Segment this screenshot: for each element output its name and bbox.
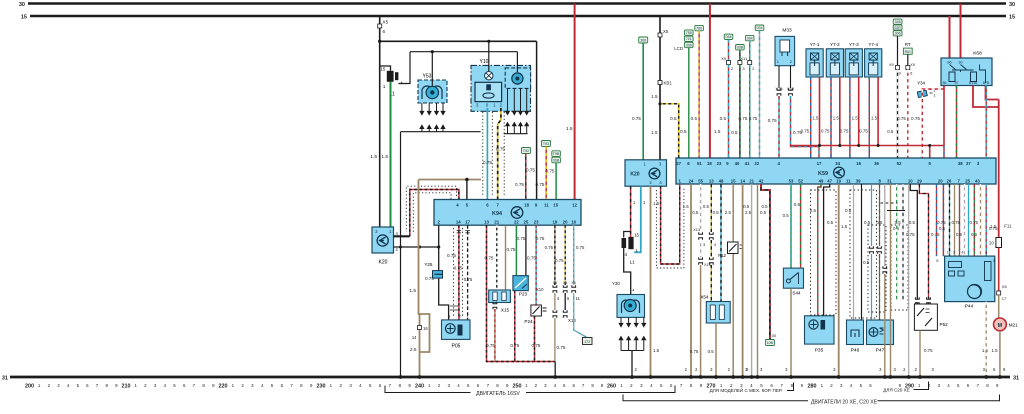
svg-text:ДЛЯ С20 ХЕ: ДЛЯ С20 ХЕ [883,388,910,393]
svg-text:30B: 30B [553,159,560,163]
svg-text:0.5: 0.5 [810,208,817,213]
wire red-blue to P44 [942,184,944,256]
shield dots loop [406,186,456,232]
wire K59 pin55 grey [700,184,702,232]
wire elbow to L1 t15 [380,66,391,71]
svg-text:0.75: 0.75 [738,116,747,121]
wire green-dash right [896,184,898,300]
svg-text:26: 26 [947,178,952,183]
svg-text:39: 39 [856,178,861,183]
wire tag to K94 pin11 [545,147,547,200]
wire M33 left lead [778,66,780,88]
svg-text:30: 30 [1009,2,1015,8]
svg-text:2.5: 2.5 [410,347,417,353]
wire K94 pin25 to P23 [525,225,527,275]
svg-text:0.75: 0.75 [507,247,516,252]
svg-text:13: 13 [484,219,489,224]
junction inj join 806 [818,144,821,147]
injector Y7-3 [845,42,862,77]
bus 15 (second) [30,15,1006,18]
wire teal-red M33 to K59 pin4 [778,96,780,158]
wire K59 pin29 to P52 [919,184,928,299]
svg-text:15: 15 [634,232,639,237]
svg-text:18: 18 [524,203,529,208]
svg-text:23: 23 [717,161,722,166]
svg-text:X13: X13 [693,228,700,232]
svg-text:18: 18 [707,161,712,166]
junction rail p21 [750,375,754,379]
junction junction y51 Y53 [431,50,434,53]
wire Y53 lead 1 [421,103,423,108]
tag 034 a [724,34,733,39]
svg-text:3: 3 [953,251,955,255]
injector Y10 inner module [475,82,502,101]
svg-text:10: 10 [908,178,913,183]
wire red bus30 to K94 pin12 [574,4,576,200]
svg-text:1.5: 1.5 [833,116,840,121]
wire K94 pin16 teal [573,225,575,285]
svg-text:ДВИГАТЕЛИ 20 ХЕ, С20 ХЕ: ДВИГАТЕЛИ 20 ХЕ, С20 ХЕ [811,399,878,405]
wire brown-white p44 [980,184,982,256]
connector X13 right [563,310,567,318]
wire K59 pin52b red-green [800,184,802,268]
wire K20r brown to rail [650,186,652,377]
svg-text:S44: S44 [792,291,801,296]
svg-text:ДЛЯ МОДЕЛЕЙ С МЕХ. КОР. ПЕР.: ДЛЯ МОДЕЛЕЙ С МЕХ. КОР. ПЕР. [710,386,783,393]
svg-text:1.5: 1.5 [651,94,658,99]
svg-text:86: 86 [943,81,947,85]
svg-text:Y7-1: Y7-1 [810,42,820,47]
svg-text:0.75: 0.75 [937,220,946,225]
rail coordinate scale [25,383,999,390]
svg-text:F11: F11 [1004,224,1012,229]
svg-text:0.75: 0.75 [464,277,473,282]
sensor P12 [718,242,743,258]
svg-text:KB1: KB1 [664,81,673,86]
svg-text:30: 30 [772,333,777,338]
tag 03B [736,45,745,50]
wire Y7-3 supply [858,77,860,146]
svg-text:49: 49 [819,178,824,183]
injector Y7-2 [826,42,843,77]
connector X5 left [378,24,382,28]
wire K20 pin2 [394,246,439,248]
svg-text:15: 15 [380,67,385,72]
wire K59 pin13 yellow [710,184,712,232]
connector X1B left [777,88,781,96]
svg-text:0.75: 0.75 [555,258,564,263]
svg-text:755: 755 [686,31,692,35]
wire black tag to X9c [897,36,899,66]
connector X11 [748,61,752,65]
svg-text:6: 6 [985,251,987,255]
svg-text:X5: X5 [571,281,575,285]
wire red F11 to X6 [998,248,1000,292]
connector-arrows Y10 lead 3 [519,108,523,129]
svg-text:X9: X9 [910,63,915,67]
svg-text:721: 721 [686,37,692,41]
wire black y41 to K94 pin9 [536,41,538,199]
wire red-green K68 pin87 down [956,86,958,159]
wire Y7-2 control [830,77,832,158]
svg-text:2.5: 2.5 [745,210,752,215]
svg-text:760: 760 [696,27,702,31]
svg-text:210: 210 [122,384,131,390]
wire red K68 to F11 b [973,86,999,108]
wire red down to F11 [998,100,1000,242]
svg-text:X13: X13 [568,318,576,323]
wire black bus15 to K20r [659,16,661,160]
tag LCD tag2 [685,36,694,41]
svg-text:X5: X5 [563,281,567,285]
svg-text:034: 034 [726,35,732,39]
injector unit Y10 outline [471,59,531,111]
svg-text:6: 6 [910,72,912,76]
sensor P52 [914,304,948,330]
svg-text:P05: P05 [452,344,461,350]
svg-text:P12: P12 [718,253,726,258]
K94 pin numbers [438,203,578,225]
svg-text:0.5: 0.5 [680,129,687,134]
svg-text:0.75: 0.75 [454,266,463,271]
svg-text:37: 37 [966,161,971,166]
svg-text:1.5: 1.5 [370,154,377,160]
wire pin19 cont [554,293,556,310]
svg-text:0.75: 0.75 [897,116,906,121]
svg-text:R61: R61 [905,50,911,54]
svg-text:42: 42 [759,178,764,183]
wire red-teal M33 right to pin17 [791,96,820,158]
wire K59 pin19 brown [838,184,840,377]
svg-text:0.75: 0.75 [989,226,998,231]
wire Y53 lead 3 [436,103,438,108]
wire red-blue mid [936,184,938,256]
svg-text:0.5: 0.5 [956,232,963,237]
tag 306 left [639,37,648,43]
svg-text:0.5: 0.5 [691,116,698,121]
bracket engines 20XE C20XE [623,395,1000,401]
svg-text:47: 47 [827,178,832,183]
wire M21 to rail [999,331,1001,377]
svg-text:X15: X15 [501,308,510,313]
svg-text:0.5: 0.5 [783,213,790,218]
sensor Y25 [424,262,442,278]
svg-text:B13A: B13A [969,81,978,85]
svg-text:0.5: 0.5 [708,349,715,354]
svg-text:15: 15 [731,178,736,183]
shield box P46 [850,190,877,318]
svg-text:K68: K68 [973,51,982,57]
svg-text:03B: 03B [737,46,744,50]
connector X13a [699,232,703,240]
svg-text:0.75: 0.75 [515,182,524,187]
wire red-teal to P44 [985,184,987,256]
svg-text:31: 31 [887,178,892,183]
svg-text:P24: P24 [524,319,533,324]
connector X13 left [553,310,557,318]
connector-arrows Y10 lead 4 [525,108,529,129]
tag 346c [893,31,902,36]
wire K59 pin25 teal2 [968,184,970,256]
svg-text:240: 240 [415,384,424,390]
shield dots loop right [656,188,684,268]
svg-text:X9: X9 [721,56,727,61]
wire red-yellow to K59 pin51 [698,31,700,158]
junction rail brown [418,375,422,379]
junction rail grey [907,375,911,379]
wire brown feeder horizontal [419,179,482,181]
wire Y10 lead 1 [507,88,509,108]
sensor P35 [805,316,835,354]
junction junction KB1 branch [658,102,661,105]
svg-text:Y53: Y53 [423,74,432,80]
valve Y34 [917,81,935,98]
junction junction X5 [378,40,381,43]
svg-text:260: 260 [607,384,616,390]
wire Y10 lead 2 [513,88,515,108]
sensor P46 [847,320,864,354]
svg-text:P52: P52 [940,322,949,327]
svg-text:40: 40 [735,161,740,166]
svg-text:0.5: 0.5 [909,220,916,225]
wire K59 pin21 grey [751,184,753,377]
svg-text:RT: RT [905,42,911,47]
wire black-white to K59 pin52 [897,70,899,159]
wire P47 wire b [879,184,881,246]
wire K59 pin11 to P46 a [853,184,855,320]
pointer C20 XE [914,382,929,390]
wire red-blue below bus [943,146,945,159]
svg-text:T92: T92 [523,149,529,153]
wire K94 pin17 shield drain [467,225,469,320]
sensor P47 [867,320,894,354]
svg-text:31: 31 [2,376,8,382]
junction rail p24 [689,375,693,379]
svg-text:P44: P44 [965,304,974,310]
sensor P23 [513,276,528,297]
svg-text:K20: K20 [630,172,639,178]
shield box P47 [868,225,886,312]
injector Y7-4 [865,42,882,77]
svg-text:220: 220 [219,384,228,390]
svg-text:X1B: X1B [787,87,795,91]
wire black-yellow to K59 pin27 [660,104,679,158]
ignition coil L1 (right) [622,232,640,265]
wire green-teal to X11 [749,41,751,61]
junction junction pin2 Y25wire [437,245,440,248]
wire P24 to loop [534,316,536,362]
wire bus15 to X5 to junction [379,16,381,41]
wire Y30 lead 3 [635,317,637,320]
connector connector pin 5 [563,285,567,293]
svg-text:0.75: 0.75 [969,220,978,225]
connector X9 b [738,61,742,65]
lamp symbol in Y10 [485,72,493,80]
relay K68 [941,51,992,86]
wire pin20 cont [564,293,566,310]
tag 034 b [745,35,754,40]
junction junction brown pin2 [418,245,421,248]
svg-text:200: 200 [25,384,34,390]
wire red-white Y34 [922,86,944,159]
svg-text:L1: L1 [630,260,636,265]
shield dots P05 pair [454,228,463,317]
svg-text:11: 11 [846,178,851,183]
wire black-green to K59 pin40 [739,65,741,159]
tag 346a [893,19,902,24]
wire pin55 to rail [700,265,702,377]
junction rail p31 [889,375,893,379]
wire K59 pin49 to P35 [818,184,821,316]
wire black-green to X9b [739,50,741,61]
svg-text:Y7-2: Y7-2 [830,42,840,47]
junction rail p8 [883,375,887,379]
svg-text:02E: 02E [894,26,901,30]
wire P23 to loop [514,291,516,362]
wire K94 pin19 [554,225,556,285]
wire Y7-1 control [810,77,812,158]
sensor P24 [524,305,546,324]
wire yellow-black Y10 to K94 pin7 [498,108,501,200]
svg-text:250: 250 [513,384,522,390]
svg-text:Y30: Y30 [612,281,621,286]
connector KB1 [658,81,662,85]
junction rail y30 [630,375,634,379]
svg-text:16: 16 [856,161,861,166]
svg-text:31: 31 [1013,376,1019,382]
wire tag to K94 pin18 [525,154,527,200]
wire K59 pin14 brown [742,184,744,377]
svg-text:1.5: 1.5 [812,116,819,121]
svg-text:41: 41 [745,161,750,166]
svg-text:25: 25 [965,178,970,183]
wire P47 wire a2 [871,254,873,320]
svg-text:T93: T93 [543,142,549,146]
connector X15 [489,290,511,313]
svg-text:15: 15 [1009,15,1015,21]
connector P47 conn a [870,246,874,254]
svg-text:0.75: 0.75 [749,116,758,121]
wire tag to K94 pin15 green [555,163,557,200]
svg-text:0.75: 0.75 [931,232,940,237]
junction rail ground left [399,375,403,379]
wire pin55 cont [700,240,702,257]
wire Y30 lead 2 [628,317,630,320]
svg-text:0.75: 0.75 [527,256,536,261]
svg-text:K59: K59 [818,171,828,177]
wire K59 pin7 grey [964,184,966,256]
tag T9B [552,151,561,157]
wire P52 to rail [919,330,921,377]
connector-arrows Y30 lead 4 [642,320,646,343]
wire K59 pin26 brown [954,184,956,256]
connector P52 conn b [927,297,931,305]
tag LCD tag3 [685,42,694,47]
wire K59 pin31 brown [890,184,892,377]
svg-text:38: 38 [958,161,963,166]
fuel pump module P44 [945,251,995,310]
svg-text:0.75: 0.75 [483,160,492,165]
svg-text:LCD: LCD [674,46,683,51]
wire K94 pin22 green to P23 [515,225,517,275]
wire brown to X15 right [505,225,507,290]
svg-text:15: 15 [553,203,558,208]
wire K94 pin2 to Y25 to P05 [439,225,449,320]
svg-text:0.5: 0.5 [895,220,902,225]
wire K59 pin48 teal [720,184,722,302]
wire grey right [908,184,910,377]
svg-text:P47: P47 [876,348,885,354]
wire M33 right lead [790,66,792,88]
wire Y7-2 supply [839,77,841,146]
wire grey-teal to K59 pin22 [759,30,761,158]
svg-text:1.5: 1.5 [991,348,998,353]
tag 346b [893,25,902,30]
shield box right [891,225,908,310]
stepper motor M33 [775,28,795,66]
connector X9 c [896,66,900,70]
svg-text:1.5: 1.5 [852,116,859,121]
svg-text:B7B: B7B [983,81,990,85]
connector-arrows Y30 lead 1 [619,320,623,343]
svg-text:29: 29 [917,178,922,183]
svg-text:30: 30 [19,2,25,8]
svg-text:306: 306 [895,32,901,36]
svg-text:X5: X5 [553,281,557,285]
wire Y53 lead 4 [442,103,444,108]
svg-text:0.75: 0.75 [536,236,545,241]
control unit K94 [434,200,581,226]
connector X54 [700,295,730,324]
svg-text:M33: M33 [782,28,792,34]
connector-arrows Y30 lead 2 [627,320,631,343]
svg-text:22: 22 [514,219,519,224]
fuse F11 [996,238,1002,248]
svg-text:ДВИГАТЕЛЬ 16SV: ДВИГАТЕЛЬ 16SV [476,391,520,397]
connector X6 [997,291,1001,295]
svg-text:280: 280 [808,384,817,390]
wire red-teal K68 down [985,86,987,159]
svg-text:55: 55 [698,178,703,183]
connector-arrows Y10 lead 1 [506,108,510,129]
wire pin13 to X54 [710,265,712,302]
svg-text:0.5: 0.5 [761,204,768,209]
svg-text:0.75: 0.75 [906,232,915,237]
svg-text:X5: X5 [383,20,389,25]
wire red K68 to F11 a [986,86,999,100]
svg-text:87: 87 [955,81,959,85]
wire red-teal to K59 pin23 [728,65,730,159]
junction rail p15 [731,375,735,379]
svg-text:86: 86 [947,61,951,65]
connector X11b [709,232,713,240]
junction rail s44 [789,375,793,379]
tag T92 [522,148,531,154]
wire drop to K94 pin5 [466,180,468,200]
connector X13b [699,257,703,265]
connector X9 a [727,61,731,65]
injector Y7-1 [806,42,823,77]
svg-text:K94: K94 [492,211,502,217]
wire pin19 to rail [554,318,556,362]
tag T93 [542,141,551,147]
junction rail p21b [756,375,760,379]
svg-text:0.5: 0.5 [743,204,750,209]
switch S44 [783,268,803,295]
svg-text:20: 20 [938,178,943,183]
svg-text:0.75: 0.75 [924,348,933,353]
bracket engine 16SV [385,386,675,393]
